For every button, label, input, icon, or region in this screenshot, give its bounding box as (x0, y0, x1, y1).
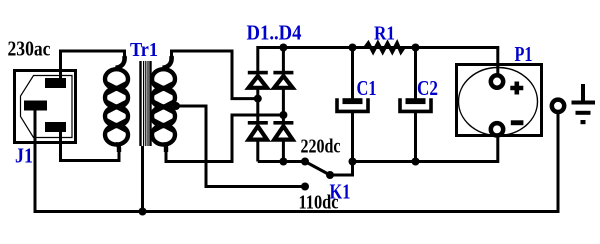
ground symbol (572, 84, 596, 124)
connector P1 (457, 65, 542, 136)
node AC2 junction (279, 111, 287, 119)
wire secondary top to bridge AC1 (172, 51, 258, 99)
wire switch common to lower rail (330, 162, 353, 176)
svg-text:C1: C1 (357, 76, 377, 100)
capacitor C1 (337, 49, 368, 162)
node bridge top / right column (279, 44, 287, 52)
svg-text:220dc: 220dc (301, 135, 341, 157)
bottom rail wire (34, 112, 559, 212)
wire bridge bottom to 220dc contact (258, 160, 305, 163)
resistor R1 (365, 43, 404, 52)
diode D4 (lower right) (273, 121, 293, 140)
wire lower rail to P1 minus (353, 134, 498, 162)
wire bridge left column (256, 46, 259, 162)
node lower rail / C2 (412, 158, 420, 166)
svg-text:J1: J1 (15, 144, 33, 168)
wire J1 middle pin down to bottom rail (34, 108, 37, 212)
node core-rail junction (139, 208, 147, 216)
transformer Tr1 primary coil (105, 56, 128, 152)
svg-text:K1: K1 (330, 180, 351, 204)
wire J1 bottom pin to transformer primary bottom (61, 130, 120, 161)
diode D2 (upper right) (273, 71, 293, 88)
transformer Tr1 secondary coil (152, 56, 175, 152)
switch K1 lever (305, 162, 330, 176)
node 110dc contact (301, 183, 309, 191)
svg-text:Tr1: Tr1 (130, 39, 158, 61)
wire bridge top rail to P1 plus (258, 48, 498, 77)
node lower rail / C1 (349, 158, 357, 166)
diode D3 (lower left) (248, 121, 268, 140)
node 220dc contact (301, 158, 309, 166)
node switch common (326, 171, 334, 179)
node top rail / C2 (412, 44, 420, 52)
wire J1 top pin to transformer primary top (61, 51, 125, 80)
wire secondary bottom to bridge AC2 (166, 115, 283, 162)
node AC1 junction (254, 95, 262, 103)
svg-text:P1: P1 (515, 42, 533, 66)
wire center tap to 110dc contact (176, 106, 305, 187)
svg-text:D1..D4: D1..D4 (247, 21, 302, 45)
node bridge bottom / right column (279, 158, 287, 166)
capacitor C2 (400, 49, 431, 162)
diode D1 (upper left) (248, 71, 268, 88)
svg-text:230ac: 230ac (8, 37, 51, 61)
transformer Tr1 core (141, 61, 151, 146)
wire core to bottom rail (ground) (141, 146, 144, 212)
wire bridge right column (282, 46, 285, 162)
connector J1 (15, 71, 76, 143)
terminal (earth clamp) (552, 100, 564, 112)
svg-text:C2: C2 (417, 76, 438, 100)
node secondary center tap (172, 102, 180, 110)
node top rail / C1 (349, 44, 357, 52)
